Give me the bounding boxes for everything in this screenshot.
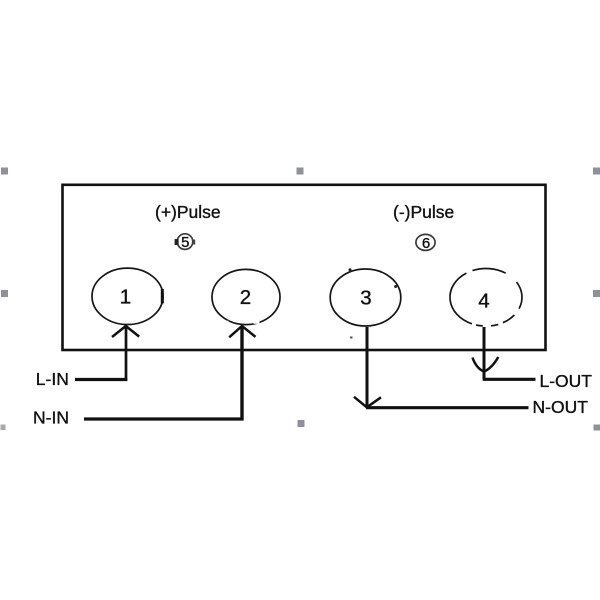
- svg-text:(+)Pulse: (+)Pulse: [155, 202, 221, 222]
- terminal 2 circle: [212, 269, 280, 324]
- arrowhead into terminal 2: [229, 326, 255, 337]
- svg-text:N-OUT: N-OUT: [533, 397, 589, 417]
- wire N-IN horizontal: [84, 417, 244, 420]
- wire N-IN vertical riser: [240, 326, 243, 421]
- cursor tick on terminal 1: [161, 289, 164, 304]
- arrowhead into terminal 1: [112, 326, 139, 337]
- wire N-OUT horizontal: [366, 406, 529, 409]
- selection handle top-left: [1, 168, 8, 175]
- terminal 4 circle (partly dashed): [450, 268, 522, 325]
- svg-text:L-OUT: L-OUT: [540, 371, 593, 391]
- wire L-IN vertical riser: [125, 326, 128, 381]
- terminal box outline: [63, 185, 546, 350]
- svg-text:6: 6: [422, 235, 430, 252]
- selection handle bottom-center: [298, 420, 305, 427]
- svg-text:4: 4: [478, 290, 489, 313]
- selection handle top-right: [593, 168, 600, 175]
- selection handle mid-left: [1, 290, 8, 297]
- wire from terminal 4 down: [483, 327, 486, 379]
- svg-text:L-IN: L-IN: [36, 369, 69, 389]
- svg-text:2: 2: [240, 286, 251, 309]
- svg-text:(-)Pulse: (-)Pulse: [393, 202, 454, 222]
- terminal 3 circle: [330, 269, 401, 326]
- selection handle bottom-right: [594, 425, 600, 431]
- svg-text:N-IN: N-IN: [33, 407, 69, 427]
- circled 6: [416, 234, 435, 252]
- stray speck near terminal 3: [350, 337, 353, 339]
- svg-text:3: 3: [360, 287, 371, 310]
- wire from terminal 3 down: [366, 327, 369, 407]
- arrowhead down on L-OUT drop: [473, 357, 499, 372]
- arrowhead down to N-OUT: [354, 397, 381, 408]
- svg-text:1: 1: [120, 286, 131, 309]
- selection handle top-center: [297, 168, 304, 175]
- selection handle mid-right: [593, 290, 600, 297]
- svg-text:5: 5: [181, 234, 189, 251]
- circled 5: [175, 234, 196, 251]
- terminal 1 circle: [92, 268, 163, 324]
- wire L-OUT horizontal: [483, 378, 536, 381]
- wire L-IN horizontal: [75, 378, 127, 381]
- selection handle bottom-left: [1, 425, 6, 431]
